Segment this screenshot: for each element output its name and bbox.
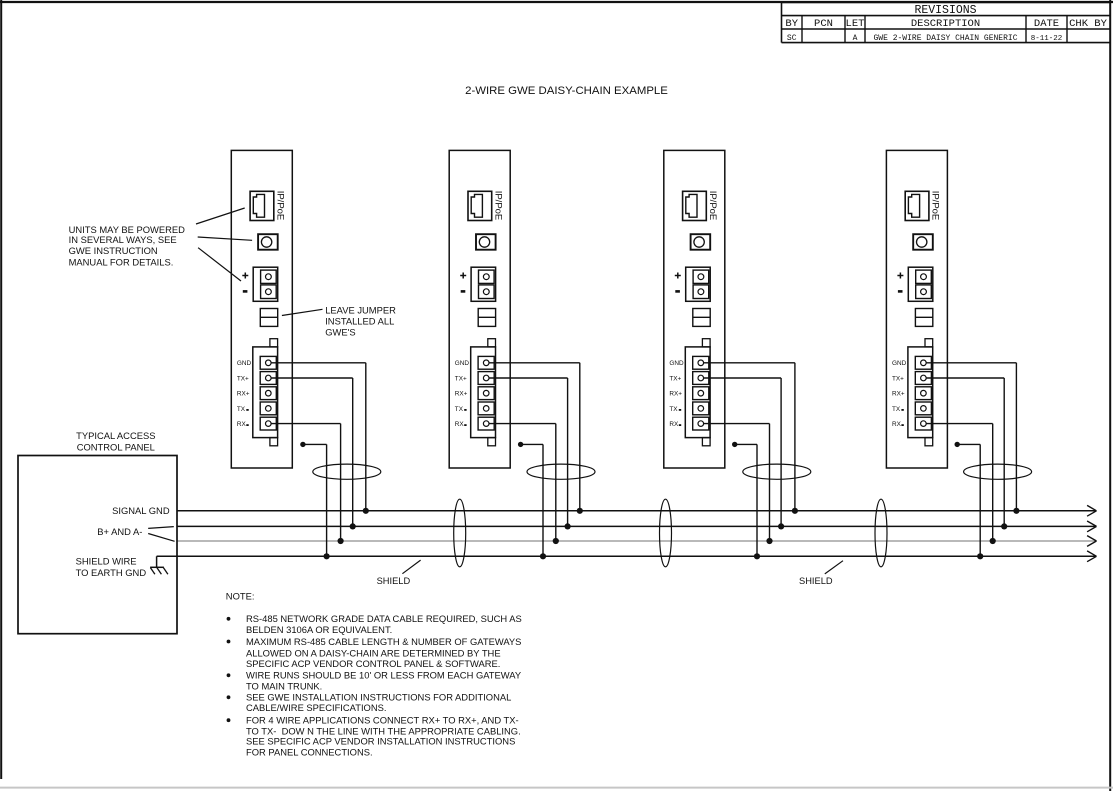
svg-text:PCN: PCN bbox=[814, 18, 833, 30]
svg-text:FOR PANEL CONNECTIONS.: FOR PANEL CONNECTIONS. bbox=[246, 747, 373, 758]
svg-text:GWE 2-WIRE DAISY CHAIN GENERIC: GWE 2-WIRE DAISY CHAIN GENERIC bbox=[873, 34, 1017, 43]
svg-text:CHK BY: CHK BY bbox=[1069, 18, 1108, 30]
svg-text:SHIELD: SHIELD bbox=[377, 576, 411, 586]
svg-text:MAXIMUM RS-485 CABLE LENGTH &: MAXIMUM RS-485 CABLE LENGTH & NUMBER OF … bbox=[246, 636, 521, 647]
svg-text:CABLE/WIRE SPECIFICATIONS.: CABLE/WIRE SPECIFICATIONS. bbox=[246, 702, 386, 713]
svg-text:A: A bbox=[853, 34, 858, 43]
svg-text:TO EARTH GND: TO EARTH GND bbox=[76, 567, 147, 578]
svg-text:WIRE RUNS SHOULD BE 10' OR LES: WIRE RUNS SHOULD BE 10' OR LESS FROM EAC… bbox=[246, 670, 522, 681]
svg-text:GWE'S: GWE'S bbox=[325, 327, 355, 338]
svg-text:INSTALLED ALL: INSTALLED ALL bbox=[325, 316, 394, 327]
svg-text:DATE: DATE bbox=[1034, 18, 1059, 30]
svg-text:BELDEN 3106A OR EQUIVALENT.: BELDEN 3106A OR EQUIVALENT. bbox=[246, 624, 392, 635]
svg-text:CONTROL PANEL: CONTROL PANEL bbox=[77, 441, 155, 452]
svg-text:NOTE:: NOTE: bbox=[226, 590, 255, 601]
svg-text:B+ AND A-: B+ AND A- bbox=[97, 526, 142, 537]
svg-text:LET: LET bbox=[846, 18, 865, 30]
svg-text:MANUAL FOR DETAILS.: MANUAL FOR DETAILS. bbox=[69, 257, 174, 268]
svg-text:FOR 4 WIRE APPLICATIONS CONNEC: FOR 4 WIRE APPLICATIONS CONNECT RX+ TO R… bbox=[246, 715, 519, 726]
svg-text:SHIELD: SHIELD bbox=[799, 576, 833, 586]
svg-text:DESCRIPTION: DESCRIPTION bbox=[911, 18, 980, 30]
svg-text:TYPICAL ACCESS: TYPICAL ACCESS bbox=[76, 430, 155, 441]
svg-text:SPECIFIC ACP VENDOR CONTROL PA: SPECIFIC ACP VENDOR CONTROL PANEL & SOFT… bbox=[246, 658, 500, 669]
svg-text:SEE GWE INSTALLATION INSTRUCTI: SEE GWE INSTALLATION INSTRUCTIONS FOR AD… bbox=[246, 692, 511, 703]
svg-text:REVISIONS: REVISIONS bbox=[914, 4, 976, 17]
svg-text:SHIELD WIRE: SHIELD WIRE bbox=[76, 555, 137, 566]
svg-text:8-11-22: 8-11-22 bbox=[1031, 35, 1063, 43]
svg-text:BY: BY bbox=[785, 18, 798, 30]
svg-text:TO MAIN TRUNK.: TO MAIN TRUNK. bbox=[246, 681, 322, 692]
svg-text:RS-485 NETWORK GRADE DATA CABL: RS-485 NETWORK GRADE DATA CABLE REQUIRED… bbox=[246, 613, 522, 624]
svg-text:IN SEVERAL WAYS, SEE: IN SEVERAL WAYS, SEE bbox=[69, 234, 177, 245]
svg-text:SIGNAL GND: SIGNAL GND bbox=[112, 505, 170, 516]
svg-text:LEAVE JUMPER: LEAVE JUMPER bbox=[325, 304, 396, 315]
svg-text:SC: SC bbox=[787, 34, 797, 43]
svg-text:2-WIRE GWE DAISY-CHAIN EXAMPLE: 2-WIRE GWE DAISY-CHAIN EXAMPLE bbox=[465, 85, 668, 97]
svg-text:SEE SPECIFIC ACP VENDOR INSTAL: SEE SPECIFIC ACP VENDOR INSTALLATION INS… bbox=[246, 736, 515, 747]
svg-text:GWE INSTRUCTION: GWE INSTRUCTION bbox=[69, 245, 158, 256]
svg-text:ALLOWED ON A DAISY-CHAIN ARE D: ALLOWED ON A DAISY-CHAIN ARE DETERMINED … bbox=[246, 647, 501, 658]
